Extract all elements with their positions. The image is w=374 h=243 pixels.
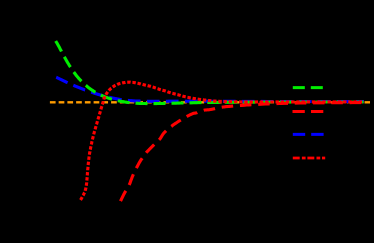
curve 2: green dashed decaying component: [56, 41, 364, 104]
zero axis line y=0 (orange dashed): [50, 101, 370, 103]
legend sample 3: blue dashed: [293, 133, 324, 136]
curve 1: blue dashed decaying component: [56, 77, 364, 101]
legend sample 4: red dotted: [293, 157, 325, 160]
curve 4: red dotted total curve with peak: [81, 82, 365, 200]
legend sample 1: green dashed: [293, 86, 324, 89]
legend sample 2: red dashed: [293, 110, 324, 113]
curve 3: red long-dashed rising component: [121, 103, 365, 201]
